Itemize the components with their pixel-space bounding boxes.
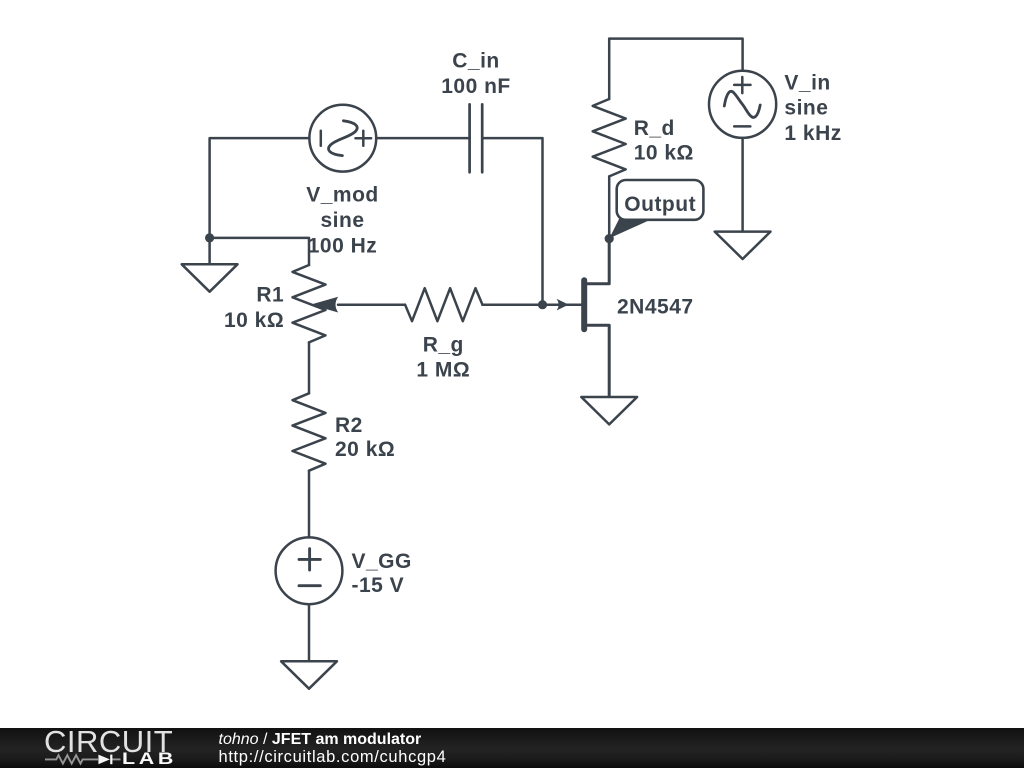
- resistor R2 20 k: [293, 393, 326, 470]
- wire: [608, 39, 611, 99]
- capacitor C_in 100 nF: [470, 104, 483, 172]
- footer title line: [219, 732, 422, 749]
- svg-text:C_in: C_in: [452, 50, 500, 73]
- node Output callout: [617, 180, 704, 220]
- node: junction dot left: [205, 233, 214, 242]
- svg-text:100 Hz: 100 Hz: [308, 235, 378, 258]
- wire: [482, 303, 581, 306]
- source V_GG -15 V: [276, 537, 343, 604]
- wire: [376, 137, 469, 140]
- potentiometer R1 10 k: [293, 265, 326, 342]
- wire: [210, 138, 310, 238]
- node: gate junction dot: [538, 300, 547, 309]
- svg-text:20 kΩ: 20 kΩ: [335, 438, 395, 461]
- svg-text:10 kΩ: 10 kΩ: [634, 141, 694, 164]
- wire: [308, 342, 311, 393]
- svg-text:2N4547: 2N4547: [617, 296, 694, 319]
- output callout tail: [609, 218, 652, 239]
- svg-text:sine: sine: [784, 96, 828, 119]
- transistor Q1 2N4547 JFET: [584, 239, 609, 397]
- gate arrow: [557, 299, 569, 311]
- wire: [210, 238, 309, 265]
- CircuitLab logo text LAB: [122, 751, 177, 768]
- wire: [609, 39, 742, 71]
- ground: [715, 232, 771, 259]
- source V_in sine 1 kHz: [709, 71, 776, 138]
- CircuitLab logo text CIRCUIT: [44, 726, 173, 757]
- svg-text:R_g: R_g: [423, 334, 464, 357]
- svg-text:R2: R2: [335, 414, 363, 437]
- svg-text:V_in: V_in: [784, 71, 830, 94]
- resistor R_d 10 k: [593, 99, 626, 176]
- source V_mod sine 100 Hz: [309, 105, 376, 172]
- ground: [182, 264, 238, 291]
- svg-text:V_GG: V_GG: [352, 550, 412, 573]
- resistor R_g 1 M: [405, 288, 482, 321]
- svg-text:100 nF: 100 nF: [441, 75, 511, 98]
- wire: [208, 238, 211, 264]
- svg-text:-15 V: -15 V: [352, 574, 405, 597]
- svg-text:R_d: R_d: [634, 117, 675, 140]
- svg-text:V_mod: V_mod: [306, 184, 379, 207]
- svg-text:R1: R1: [256, 284, 284, 307]
- wire: [308, 604, 311, 661]
- wire: [482, 138, 542, 305]
- svg-text:Output: Output: [624, 193, 696, 216]
- svg-text:1 kHz: 1 kHz: [784, 122, 841, 145]
- svg-text:1 MΩ: 1 MΩ: [416, 359, 470, 382]
- footer bar: [0, 728, 1024, 768]
- wire: [741, 138, 744, 232]
- svg-text:sine: sine: [320, 209, 364, 232]
- node: output junction dot: [605, 234, 614, 243]
- ground: [581, 397, 637, 424]
- svg-text:10 kΩ: 10 kΩ: [224, 309, 284, 332]
- wiper arrow of R1: [311, 297, 339, 313]
- wire: [338, 303, 405, 306]
- ground: [281, 661, 337, 688]
- footer url line: [219, 749, 447, 766]
- wire: [308, 471, 311, 538]
- wire: [608, 176, 611, 238]
